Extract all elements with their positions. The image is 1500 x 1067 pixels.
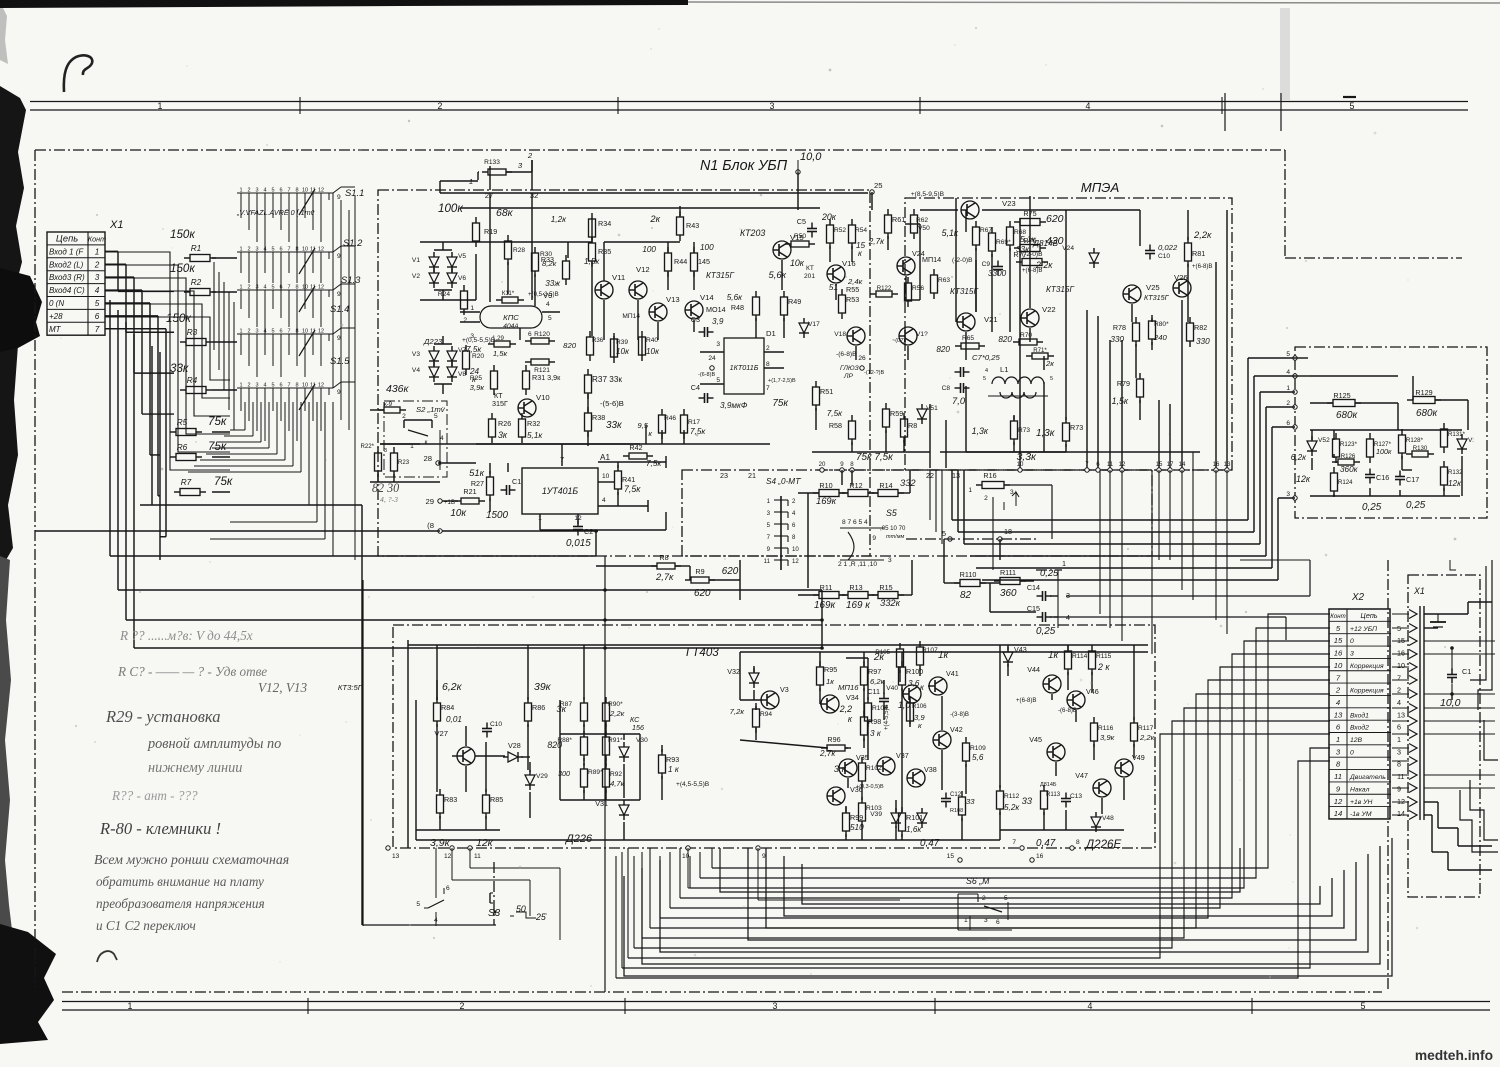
- svg-text:A1: A1: [600, 453, 610, 462]
- svg-text:7,2к: 7,2к: [730, 707, 745, 716]
- svg-text:4: 4: [263, 285, 266, 291]
- capacitor C17: [1395, 471, 1419, 486]
- resistor R10 169k: [813, 481, 845, 506]
- svg-text:R93: R93: [666, 755, 679, 764]
- svg-text:C11: C11: [867, 687, 880, 696]
- svg-text:R117: R117: [1138, 725, 1154, 732]
- svg-text:R-80 - клемники !: R-80 - клемники !: [99, 819, 221, 838]
- wire mesh: bottom left block: [408, 640, 1148, 848]
- svg-text:169к: 169к: [814, 600, 835, 611]
- label -(6-8)V glu: [836, 351, 859, 380]
- svg-text:1,2к: 1,2к: [551, 215, 567, 224]
- svg-text:2 к: 2 к: [1097, 662, 1110, 672]
- svg-text:3 к: 3 к: [834, 763, 847, 774]
- label 436k: [386, 383, 410, 395]
- svg-text:25: 25: [874, 181, 883, 190]
- svg-text:8: 8: [1336, 760, 1341, 769]
- capacitor C5: [797, 217, 817, 238]
- dashed box bottom output block: [393, 625, 1155, 848]
- svg-text:2: 2: [1286, 400, 1290, 407]
- IC A1 1UT401B: [522, 444, 648, 530]
- svg-text:V:: V:: [1468, 437, 1474, 444]
- label 0,25 0,25: [1362, 500, 1426, 513]
- svg-text:8 7 6 5 4: 8 7 6 5 4: [842, 519, 868, 526]
- svg-text:3: 3: [770, 101, 775, 111]
- wire: MPEA verticals to bottom pins: [842, 210, 1227, 485]
- resistor R122: [870, 285, 898, 297]
- transistor V22: [1021, 305, 1056, 327]
- wire: bus verticals mid: [362, 505, 822, 925]
- svg-text:V18: V18: [834, 331, 846, 338]
- resistor R126 360k: [1332, 453, 1360, 474]
- svg-text:R3: R3: [187, 328, 198, 337]
- svg-text:МО14: МО14: [706, 305, 726, 314]
- resistor R110 82: [954, 570, 986, 601]
- transistor V14: [685, 293, 726, 319]
- svg-text:C8: C8: [942, 385, 951, 392]
- diode V5: [447, 252, 466, 272]
- connector X1 table (left): [47, 232, 106, 335]
- svg-text:R56: R56: [912, 285, 924, 292]
- svg-text:5: 5: [271, 188, 274, 194]
- dashed box UBP: [378, 190, 870, 556]
- svg-text:„V.VFAZL.AVRЁ 0 [ 1mv̈: „V.VFAZL.AVRЁ 0 [ 1mv̈: [236, 208, 315, 217]
- svg-text:12: 12: [318, 285, 324, 291]
- svg-text:75к 7,5к: 75к 7,5к: [856, 452, 893, 463]
- label input note: [236, 208, 315, 217]
- label 100k: [438, 202, 463, 215]
- resistor R106 3,9k: [907, 697, 928, 730]
- svg-text:(8: (8: [427, 521, 434, 530]
- svg-text:R120: R120: [534, 331, 550, 338]
- wire braid: verticals mid: [214, 262, 234, 430]
- svg-text:R7: R7: [181, 478, 192, 487]
- svg-text:R24: R24: [438, 291, 450, 298]
- svg-text:R8: R8: [908, 421, 917, 430]
- resistor R91: [603, 731, 624, 761]
- svg-text:ГТ403: ГТ403: [686, 646, 719, 659]
- label +0,5-5,5V: [462, 337, 496, 354]
- wire: long bus y=556: [110, 555, 596, 557]
- svg-text:КТ203: КТ203: [740, 228, 765, 238]
- svg-text:75к: 75к: [214, 475, 233, 488]
- diode V51: [917, 404, 938, 424]
- svg-text:+(6-8)В: +(6-8)В: [1192, 263, 1213, 270]
- transistor V21: [957, 313, 998, 331]
- svg-text:21: 21: [748, 471, 756, 480]
- svg-text:10: 10: [682, 853, 690, 860]
- label -(0?)V: [892, 338, 905, 344]
- svg-text:mm/мм: mm/мм: [886, 534, 904, 540]
- wire mesh: MPEA interior: [905, 196, 1200, 452]
- svg-text:C7*0,25: C7*0,25: [972, 353, 1001, 362]
- label 33 rr: [1022, 795, 1033, 806]
- svg-text:1,5к: 1,5к: [493, 349, 508, 358]
- label -(6-8)V rr2: [1058, 707, 1077, 714]
- label +(6-8)V rr: [1016, 697, 1037, 704]
- svg-text:10к: 10к: [646, 347, 660, 356]
- diode V28: [503, 741, 523, 762]
- svg-text:R10: R10: [819, 481, 832, 490]
- svg-text:68к: 68к: [496, 207, 514, 219]
- svg-text:4: 4: [1286, 369, 1290, 376]
- wire mesh: V43 cluster: [1000, 645, 1134, 840]
- svg-text:100к: 100к: [438, 202, 463, 215]
- resistor R76: [1014, 235, 1064, 252]
- svg-text:-(3-8)В: -(3-8)В: [950, 711, 969, 718]
- svg-text:R21: R21: [463, 487, 476, 496]
- label +(4-5,5)V: [883, 704, 890, 730]
- svg-text:0 (N: 0 (N: [49, 299, 64, 308]
- resistor R79 1,5k: [1112, 373, 1144, 406]
- label node 23 21 22 13: [720, 471, 960, 480]
- resistor R15 332k: [872, 583, 904, 608]
- svg-text:V42: V42: [950, 725, 963, 734]
- svg-text:3,9мкФ: 3,9мкФ: [720, 401, 748, 410]
- svg-text:R113: R113: [1046, 791, 1061, 798]
- resistor R40 10k: [639, 331, 661, 361]
- resistor R103: [859, 797, 883, 827]
- svg-text:R92: R92: [610, 771, 622, 778]
- resistor R86: [525, 697, 546, 727]
- diode V3: [412, 346, 439, 366]
- resistor R22*: [360, 443, 387, 477]
- svg-text:Д226Е: Д226Е: [1084, 838, 1122, 851]
- svg-text:14: 14: [1334, 809, 1343, 818]
- frame: bottom dash-dot border: [62, 991, 1382, 993]
- switch S1.1: [237, 187, 364, 215]
- svg-text:к-9: к-9: [384, 401, 393, 408]
- svg-text:7,5к: 7,5к: [827, 409, 843, 418]
- label node 18: [427, 521, 442, 533]
- svg-text:R129: R129: [1415, 388, 1432, 397]
- svg-text:R78: R78: [1113, 323, 1126, 332]
- svg-text:4: 4: [263, 383, 266, 389]
- svg-text:2: 2: [527, 151, 533, 160]
- svg-text:0,25: 0,25: [1362, 502, 1382, 513]
- svg-text:6: 6: [446, 885, 450, 892]
- svg-text:5: 5: [942, 529, 946, 538]
- svg-text:R ?? ......м?в: V до 44: R ?? ......м?в: V до 44,5х: [119, 628, 253, 643]
- svg-text:R123*: R123*: [1340, 441, 1358, 448]
- svg-text:R20: R20: [472, 353, 484, 360]
- svg-text:Цепь: Цепь: [56, 233, 78, 244]
- wire: nested rectangle bus 1: [748, 848, 1356, 940]
- resistor K11*: [496, 290, 559, 303]
- scan artifact: fold shadow: [1280, 8, 1290, 100]
- svg-text:Вход1: Вход1: [1350, 711, 1369, 719]
- svg-text:1,0: 1,0: [898, 700, 910, 710]
- svg-text:10: 10: [602, 473, 610, 480]
- svg-text:R25: R25: [470, 375, 482, 382]
- svg-text:C13: C13: [1070, 793, 1082, 800]
- svg-text:R132: R132: [1448, 469, 1463, 476]
- svg-text:13: 13: [392, 853, 400, 860]
- svg-text:R4: R4: [187, 376, 198, 385]
- svg-text:7: 7: [287, 188, 290, 194]
- wire mesh: far-right box: [1310, 376, 1468, 496]
- svg-text:S2 „1mv̈: S2 „1mv̈: [416, 405, 446, 414]
- svg-text:2: 2: [766, 345, 770, 352]
- svg-text:R94: R94: [760, 711, 772, 718]
- svg-text:0,01: 0,01: [446, 715, 462, 724]
- svg-text:R51: R51: [820, 387, 833, 396]
- svg-text:26: 26: [858, 355, 866, 362]
- capacitor C1 right: [1440, 646, 1471, 709]
- svg-text:(-2-0)В: (-2-0)В: [952, 257, 973, 264]
- svg-text:+(6-8)В: +(6-8)В: [1022, 267, 1043, 274]
- svg-text:V14: V14: [700, 293, 714, 302]
- transistor V10: [518, 393, 550, 417]
- svg-text:2,2к: 2,2к: [1139, 733, 1155, 742]
- resistor R96 2,7k: [819, 735, 851, 758]
- switch S6: [958, 876, 1012, 930]
- svg-text:R102: R102: [866, 765, 882, 772]
- transistor V40: [886, 685, 921, 703]
- resistor R27 51k: [469, 467, 493, 501]
- svg-text:C10: C10: [1158, 253, 1170, 260]
- svg-text:332: 332: [900, 477, 916, 488]
- resistor R101 1,6k: [899, 807, 924, 837]
- svg-text:680к: 680к: [1416, 408, 1437, 419]
- resistor R37 33k: [585, 369, 623, 399]
- svg-text:10: 10: [302, 383, 308, 389]
- svg-text:620: 620: [1046, 213, 1064, 225]
- svg-text:-(6-8)В: -(6-8)В: [1058, 707, 1077, 714]
- svg-text:R14: R14: [879, 481, 892, 490]
- svg-text:9: 9: [337, 291, 341, 298]
- svg-text:КПС: КПС: [503, 313, 519, 322]
- svg-text:12: 12: [792, 558, 799, 565]
- diode V6: [447, 268, 466, 288]
- label 820 R88: [547, 740, 562, 750]
- svg-text:5: 5: [1286, 351, 1290, 358]
- diode V30: [619, 742, 629, 762]
- resistor R102: [856, 757, 884, 790]
- svg-text:100: 100: [642, 245, 656, 254]
- svg-text:R33: R33: [541, 255, 554, 264]
- svg-text:R53: R53: [846, 295, 859, 304]
- transistor V44: [1027, 665, 1061, 693]
- output block bottom pin row: [386, 839, 1080, 862]
- svg-text:V21: V21: [984, 315, 998, 324]
- label small row 2 1 R11 10: [838, 561, 877, 568]
- svg-text:V6: V6: [458, 275, 466, 282]
- diode V48: [1091, 812, 1114, 832]
- svg-text:R97: R97: [868, 667, 881, 676]
- label KT315G mid1: [950, 287, 978, 296]
- svg-text:R106: R106: [912, 703, 927, 710]
- svg-text:R112: R112: [1004, 793, 1020, 800]
- handwriting line 1: [119, 628, 253, 643]
- svg-text:330: 330: [1196, 337, 1210, 346]
- label GT403: [686, 646, 719, 659]
- handwriting line 10: [96, 874, 264, 889]
- svg-text:R73: R73: [1070, 423, 1083, 432]
- svg-text:5: 5: [1050, 376, 1053, 382]
- svg-text:КТ315Г: КТ315Г: [1144, 293, 1170, 302]
- svg-text:V16: V16: [842, 259, 856, 268]
- svg-text:5: 5: [1336, 624, 1341, 633]
- svg-text:ровной амплитуды по: ровной амплитуды по: [147, 736, 281, 752]
- label 0,25 C14: [1040, 567, 1059, 578]
- svg-text:R11: R11: [820, 583, 833, 592]
- svg-text:2,2: 2,2: [839, 704, 852, 714]
- resistor R44 100: [642, 245, 687, 277]
- svg-text:3,9к: 3,9к: [430, 837, 451, 849]
- diode V1: [412, 252, 439, 272]
- handwriting line 11: [96, 896, 265, 911]
- resistor R13 169k: [842, 583, 874, 611]
- svg-text:12: 12: [444, 853, 452, 860]
- svg-text:МТ: МТ: [49, 325, 62, 334]
- svg-text:3: 3: [1350, 651, 1354, 658]
- diode V31: [595, 799, 629, 820]
- label 2k r: [873, 652, 884, 663]
- handwriting line 4: [105, 707, 221, 726]
- dashed box far-right network: [1295, 347, 1487, 518]
- svg-text:R109: R109: [970, 745, 986, 752]
- svg-text:1КТ011Б: 1КТ011Б: [730, 363, 759, 372]
- svg-text:R32: R32: [527, 419, 540, 428]
- svg-text:V52: V52: [1318, 437, 1330, 444]
- label node 5 18: [942, 527, 1012, 541]
- resistor R68: [1007, 221, 1037, 254]
- label +(6-8)V: [1192, 263, 1213, 270]
- capacitor C8: [942, 383, 970, 393]
- capacitor C4: [691, 383, 748, 410]
- svg-text:C2: C2: [584, 527, 593, 536]
- wire: nested rectangle bus 4: [802, 864, 1320, 904]
- resistor R51 75k: [772, 381, 833, 411]
- svg-text:3: 3: [384, 448, 387, 454]
- svg-text:28: 28: [423, 454, 432, 463]
- svg-text:1к: 1к: [826, 677, 834, 686]
- resistor R82 330: [1187, 317, 1211, 347]
- resistor R99 510: [843, 807, 865, 837]
- svg-text:1: 1: [128, 1001, 133, 1011]
- label (-2-0)V a: [952, 257, 973, 264]
- wire: R110 net: [944, 539, 1066, 628]
- svg-text:+(0,3-0,5)В: +(0,3-0,5)В: [856, 784, 884, 790]
- svg-text:4: 4: [1088, 1001, 1093, 1011]
- outer dash-dot frame: [35, 150, 1462, 990]
- svg-text:КТ3:5Г: КТ3:5Г: [338, 683, 363, 692]
- svg-text:3 к: 3 к: [870, 729, 882, 738]
- svg-text:10: 10: [792, 546, 799, 553]
- svg-text:R86: R86: [532, 703, 545, 712]
- resistor R8b: [901, 413, 918, 443]
- svg-text:7: 7: [1012, 839, 1016, 846]
- wire: top entry horizontals: [440, 160, 532, 193]
- label KT315G V10: [492, 391, 508, 408]
- resistor R80 240: [1149, 315, 1170, 345]
- svg-text:5: 5: [416, 901, 420, 908]
- svg-text:3: 3: [1286, 491, 1290, 498]
- resistor R127*: [1367, 433, 1392, 463]
- resistor R107 1k: [917, 641, 949, 671]
- resistor R111 360: [994, 568, 1026, 599]
- svg-text:3: 3: [255, 383, 258, 389]
- resistor R133: [469, 151, 538, 200]
- resistor R41 7,5k: [615, 465, 642, 495]
- resistor R6 75к: [170, 440, 227, 461]
- svg-text:6,2к: 6,2к: [870, 677, 885, 686]
- svg-text:V5: V5: [458, 253, 466, 260]
- transistor V34: [821, 683, 859, 713]
- svg-text:5,2к: 5,2к: [1004, 803, 1020, 812]
- scan artifact: pen arc bottom left: [97, 951, 117, 962]
- svg-text:10: 10: [1397, 661, 1405, 670]
- wire: staircase bus to X2: [616, 614, 1330, 978]
- svg-text:12к: 12к: [476, 837, 494, 849]
- svg-text:5: 5: [271, 285, 274, 291]
- label KT315G mid2: [1046, 285, 1074, 294]
- svg-text:R125: R125: [1333, 391, 1350, 400]
- svg-text:11: 11: [764, 558, 771, 565]
- svg-text:Вход3 (R): Вход3 (R): [49, 273, 85, 282]
- svg-text:8: 8: [766, 361, 770, 368]
- svg-text:R42: R42: [629, 443, 642, 452]
- svg-text:R22*: R22*: [360, 443, 374, 450]
- svg-text:4: 4: [985, 368, 988, 374]
- wire: left frame bottom links: [363, 862, 497, 925]
- svg-text:3,9к: 3,9к: [1100, 733, 1115, 742]
- label 6,2k: [442, 681, 463, 693]
- resistor R54: [849, 219, 868, 258]
- label 5,1k a: [942, 228, 959, 238]
- svg-text:V45: V45: [1029, 735, 1042, 744]
- label C7 0,25: [972, 353, 1001, 362]
- svg-text:9: 9: [337, 194, 341, 201]
- wire: long bus y=620: [126, 619, 822, 621]
- IC D1 1KT011B: [716, 329, 796, 394]
- svg-text:Х2: Х2: [1351, 592, 1365, 603]
- wire: C14 C15 outgoing: [1054, 560, 1310, 640]
- svg-text:3к: 3к: [498, 430, 508, 440]
- svg-text:4: 4: [440, 435, 444, 442]
- svg-text:Всем мужно ронши схематочна: Всем мужно ронши схематочная: [94, 852, 289, 867]
- transistor V15 KT203: [740, 228, 804, 259]
- svg-text:10: 10: [1334, 661, 1343, 670]
- svg-text:R C? - —— — ? - Удв отве: R C? - —— — ? - Удв отве: [117, 664, 267, 679]
- resistor R105: [875, 643, 903, 673]
- svg-text:МПЭА: МПЭА: [1081, 180, 1120, 195]
- svg-text:V25: V25: [1146, 283, 1160, 292]
- wire: long bus y=505: [140, 504, 362, 506]
- svg-text:V1?: V1?: [916, 331, 928, 338]
- svg-text:V23: V23: [1002, 199, 1016, 208]
- svg-text:V39: V39: [870, 811, 882, 818]
- svg-text:R122: R122: [877, 285, 892, 292]
- svg-text:4, ?-3: 4, ?-3: [380, 495, 398, 504]
- svg-text:+12 УБП: +12 УБП: [1350, 626, 1377, 633]
- resistor R50 10k: [785, 233, 815, 268]
- transistor V27: [434, 729, 475, 765]
- resistor R45 145: [691, 243, 715, 277]
- svg-text:S1.3: S1.3: [341, 274, 361, 285]
- svg-text:R116: R116: [1098, 725, 1114, 732]
- svg-text:МП14: МП14: [922, 255, 941, 264]
- svg-text:S1.2: S1.2: [343, 237, 363, 248]
- svg-text:V44: V44: [1027, 665, 1040, 674]
- svg-text:100к: 100к: [1376, 447, 1392, 456]
- svg-text:12к: 12к: [1296, 474, 1311, 484]
- wire: R8 connections: [596, 560, 740, 600]
- svg-text:R23: R23: [398, 459, 410, 466]
- svg-text:2,2к: 2,2к: [1193, 229, 1212, 240]
- svg-text:169к: 169к: [816, 495, 837, 506]
